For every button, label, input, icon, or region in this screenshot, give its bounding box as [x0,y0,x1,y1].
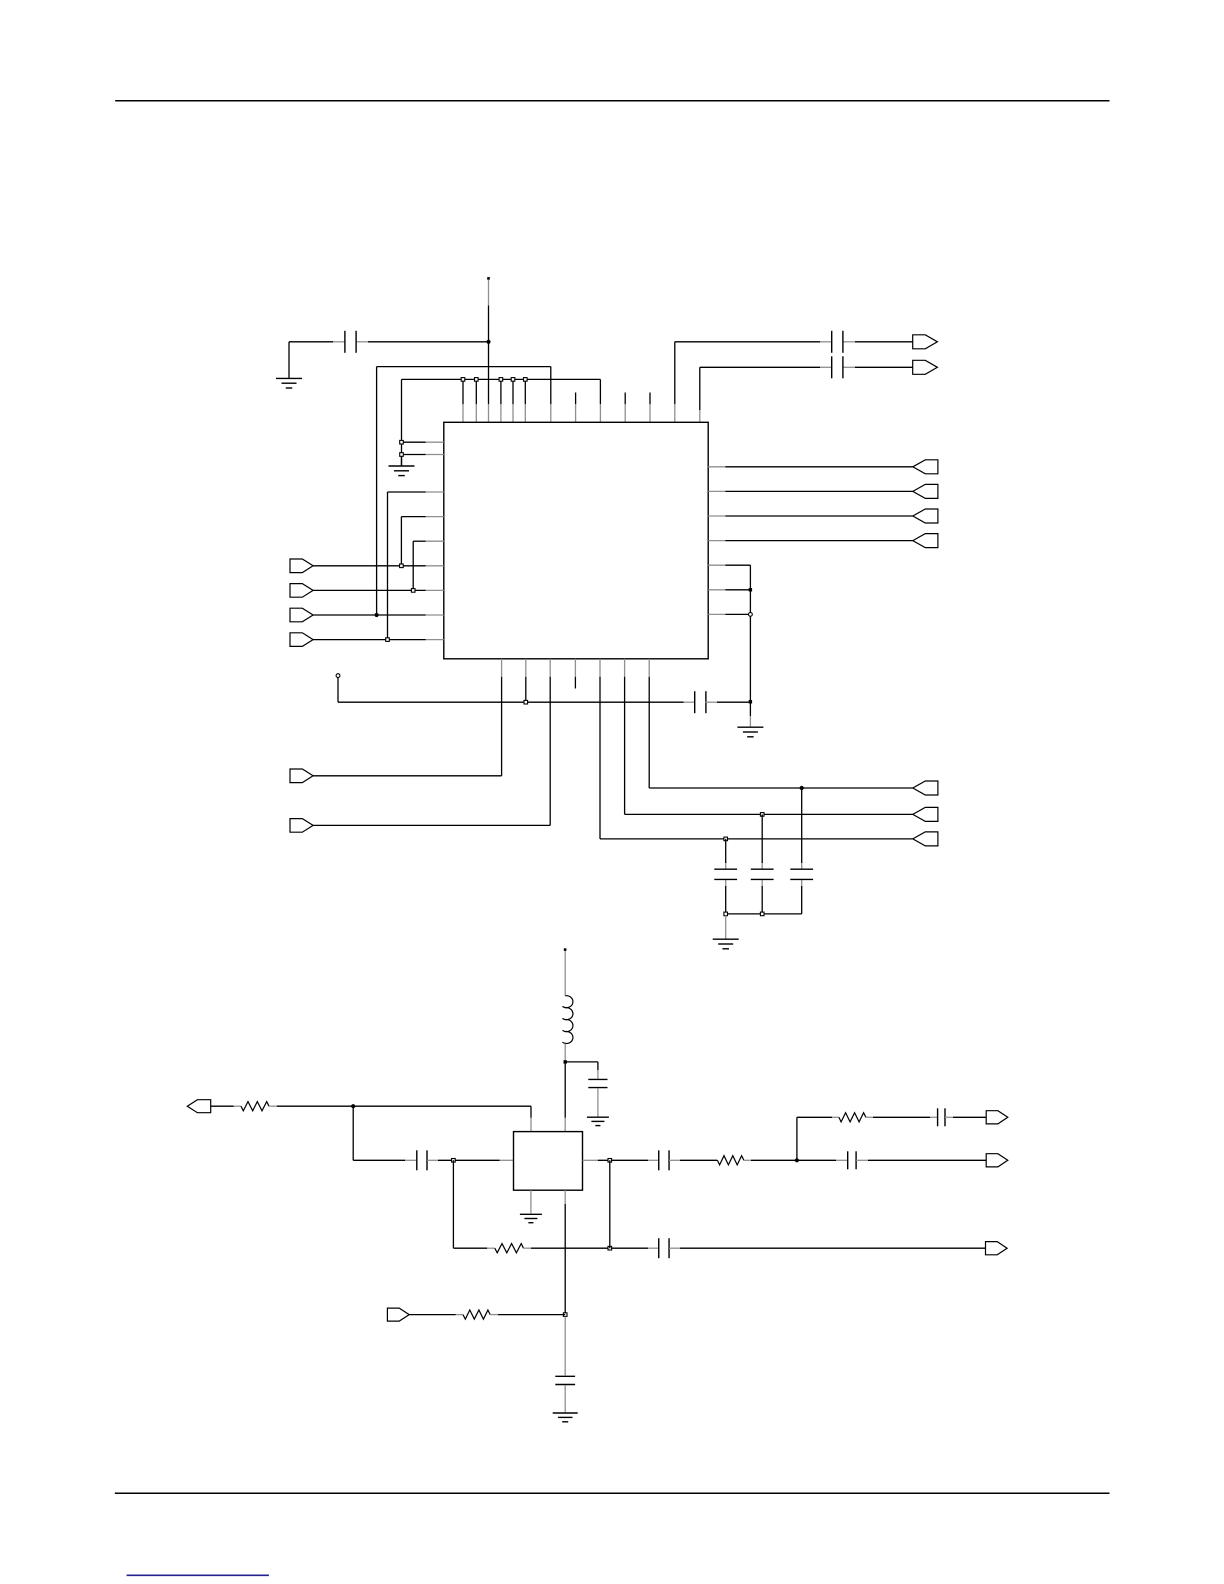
wire pin r7 [708,613,750,615]
wire pin t13 [699,367,701,410]
wire out2 [700,366,913,368]
wire L1 lead [564,1044,566,1061]
footer rule [115,1492,1110,1494]
port P16 [187,1100,210,1113]
capacitor C7 [790,869,813,879]
ground GND1 [276,378,302,388]
wire fb right [669,1247,985,1249]
wire pin t8 stub [575,393,577,405]
junction square top4 [511,378,515,382]
wire C14 to ground [564,1386,566,1413]
junction square L1 [400,440,404,444]
transistor Q1 [514,1132,583,1191]
ground GND3 [737,727,763,737]
port P9 [913,509,938,523]
wire to GND4 [725,916,727,939]
wire tap3 [945,1116,986,1118]
capacitor C13 [659,1238,669,1258]
wire P11 [313,775,502,777]
wire pin t10 stub [624,393,626,405]
capacitor C1 [345,331,356,353]
capacitor C2 [832,331,843,353]
junction square CB2 [760,912,764,916]
wire out mid [669,1159,717,1161]
wire pin b7 [648,677,650,788]
wire pin r6 [708,589,750,591]
wire R1 on [269,1105,531,1107]
wire pin r1 [708,466,913,468]
wire pin t9 [599,379,601,404]
wire tap2 [866,1116,938,1118]
wire VDD stub lead [488,280,490,306]
IC U1 bottom pins [502,659,650,677]
port P13 [913,781,938,795]
wire pin l1 [403,441,444,443]
wire pin t4 [500,381,502,404]
wire top bus B [402,379,601,466]
capacitor C14 [555,1376,575,1384]
port P5 [913,335,938,349]
junction dot OUT2 [795,1158,799,1162]
wire right ground bus [749,565,751,726]
wire VCC lead [564,951,566,996]
port P20 [387,1308,409,1321]
node TP circle [336,674,340,678]
wire tap [797,1117,839,1160]
IC U1 top pins [463,404,700,422]
junction dot RG3 [749,700,752,703]
wire pin b1 [501,677,503,776]
wire C8 to ground [597,1088,599,1117]
junction square CB1 [724,912,728,916]
wire VDD vertical [488,306,490,405]
port P18 [986,1111,1008,1124]
capacitor C6 [751,869,774,879]
junction square B3 [724,837,728,841]
wire emitter [564,1190,566,1314]
junction square P4 [386,638,390,642]
port P7 [913,460,938,474]
wire top bus A [377,367,551,615]
wire P16 to R1 [211,1105,241,1107]
wire pin l4 [401,516,443,518]
wire pin b3 [549,677,551,826]
capacitor C9 [417,1150,427,1170]
ground GND2 [389,466,415,476]
capacitor C8 [588,1079,607,1087]
junction dot P3 [375,613,379,617]
wire cap bus [726,913,802,915]
wire P20 to R5 [409,1314,463,1316]
wire C4 right [706,701,751,703]
wire to Q1 top [530,1106,532,1131]
junction square OUT [608,1159,612,1163]
ground GND7 [553,1413,578,1422]
wire pin r3 [708,515,913,517]
wire VC to C8 [565,1062,598,1079]
capacitor C11 [848,1151,856,1169]
riser base [352,1106,354,1160]
riser C [412,541,414,590]
wire pin r4 [708,540,913,542]
resistor R1 [241,1102,269,1111]
junction square P1 [400,564,404,568]
footer link underline [127,1574,269,1576]
port P8 [913,484,938,498]
wire TP down [337,678,339,703]
wire P12 [313,824,550,826]
capacitor C3 [832,356,843,378]
wire pin b5 [599,677,601,839]
junction square P2 [411,589,415,593]
wire pin b6 [624,677,626,815]
junction square top3 [499,378,503,382]
wire pin l2 [403,454,444,456]
wire out1 [675,341,913,343]
wire P2 to pin [313,589,444,591]
junction square FB [608,1246,612,1250]
wire fb left [453,1247,494,1249]
wire Q1 out [583,1159,659,1161]
inductor L1 [562,996,573,1044]
wire out b2 [625,813,913,815]
junction square RG1 [749,588,752,591]
header rule [115,100,1109,102]
wire C1 to ground [288,342,290,379]
junction square top2 [475,378,479,382]
wire P1 to pin [313,565,444,567]
ground GND6 [520,1214,542,1222]
ground GND5 [587,1117,609,1125]
wire R5 on [490,1314,565,1316]
ground GND4 [713,939,739,949]
capacitor C4 [695,691,706,713]
wire pin t12 [674,342,676,405]
junction square VC [564,1060,567,1063]
wire fb mid [524,1247,659,1249]
riser A [387,492,389,640]
wire pin b4 stub [574,677,576,689]
Q1 ground pin [530,1190,532,1213]
capacitor C7 wire [801,788,803,914]
junction square BC [452,1159,456,1163]
capacitor C6 wire [761,814,763,914]
capacitor C12 [938,1108,945,1126]
capacitor C10 [659,1150,669,1170]
port P10 [913,534,938,548]
riser feedback [452,1160,454,1248]
wire pin t5 [512,381,514,404]
wire pin l5 [413,540,444,542]
junction square EM [563,1313,567,1317]
junction dot B1 [800,786,804,790]
wire pin l3 [388,491,444,493]
riser out-fb [609,1160,611,1248]
node VCC dot [564,948,567,951]
resistor R4 [839,1113,866,1122]
junction square B2 [760,813,764,817]
junction square C4 [524,700,528,704]
wire pin t2 [475,381,477,404]
node VDD stub dot [487,277,490,280]
port P14 [913,807,938,821]
wire out b1 [649,787,913,789]
wire pin t11 stub [649,393,651,405]
junction square top5 [524,378,528,382]
wire P4 to pin [313,639,444,641]
capacitor C5 [714,869,737,879]
junction circle RG2 [749,613,753,617]
wire out end [856,1159,986,1161]
wire pin r2 [708,490,913,492]
wire P3 to pin [313,614,444,616]
capacitor C1 left wire [289,341,489,343]
junction dot VDD [486,340,490,344]
wire pin t7 [550,367,552,405]
junction dot BB [351,1104,355,1108]
resistor R5 [463,1310,490,1319]
IC U1 [444,422,708,659]
port P1 [290,559,313,573]
wire out b3 [600,838,913,840]
port P15 [913,832,938,846]
wire pin t6 [524,381,526,404]
wire C4 left [338,701,695,703]
wire pin r5 [708,564,750,566]
wire base right [427,1159,513,1161]
port P11 [290,769,313,783]
port P3 [290,608,313,622]
wire base left [353,1159,417,1161]
wire pin b2 [525,677,527,701]
junction square top1 [461,378,465,382]
port P12 [290,819,313,833]
port P4 [290,633,313,647]
wire VC to Q1 [564,1062,566,1132]
wire out mid2 [744,1159,848,1161]
port P6 [913,360,938,374]
capacitor C14 lead [564,1317,566,1376]
wire to GND2 [401,456,403,466]
port P2 [290,584,313,598]
riser B [400,517,402,566]
resistor R2 [495,1244,524,1253]
port P19 [986,1242,1008,1255]
junction square L2 [400,453,404,457]
wire pin t1 [462,381,464,404]
port P17 [986,1154,1008,1167]
capacitor C5 wire [725,839,727,914]
resistor R3 [717,1156,744,1165]
